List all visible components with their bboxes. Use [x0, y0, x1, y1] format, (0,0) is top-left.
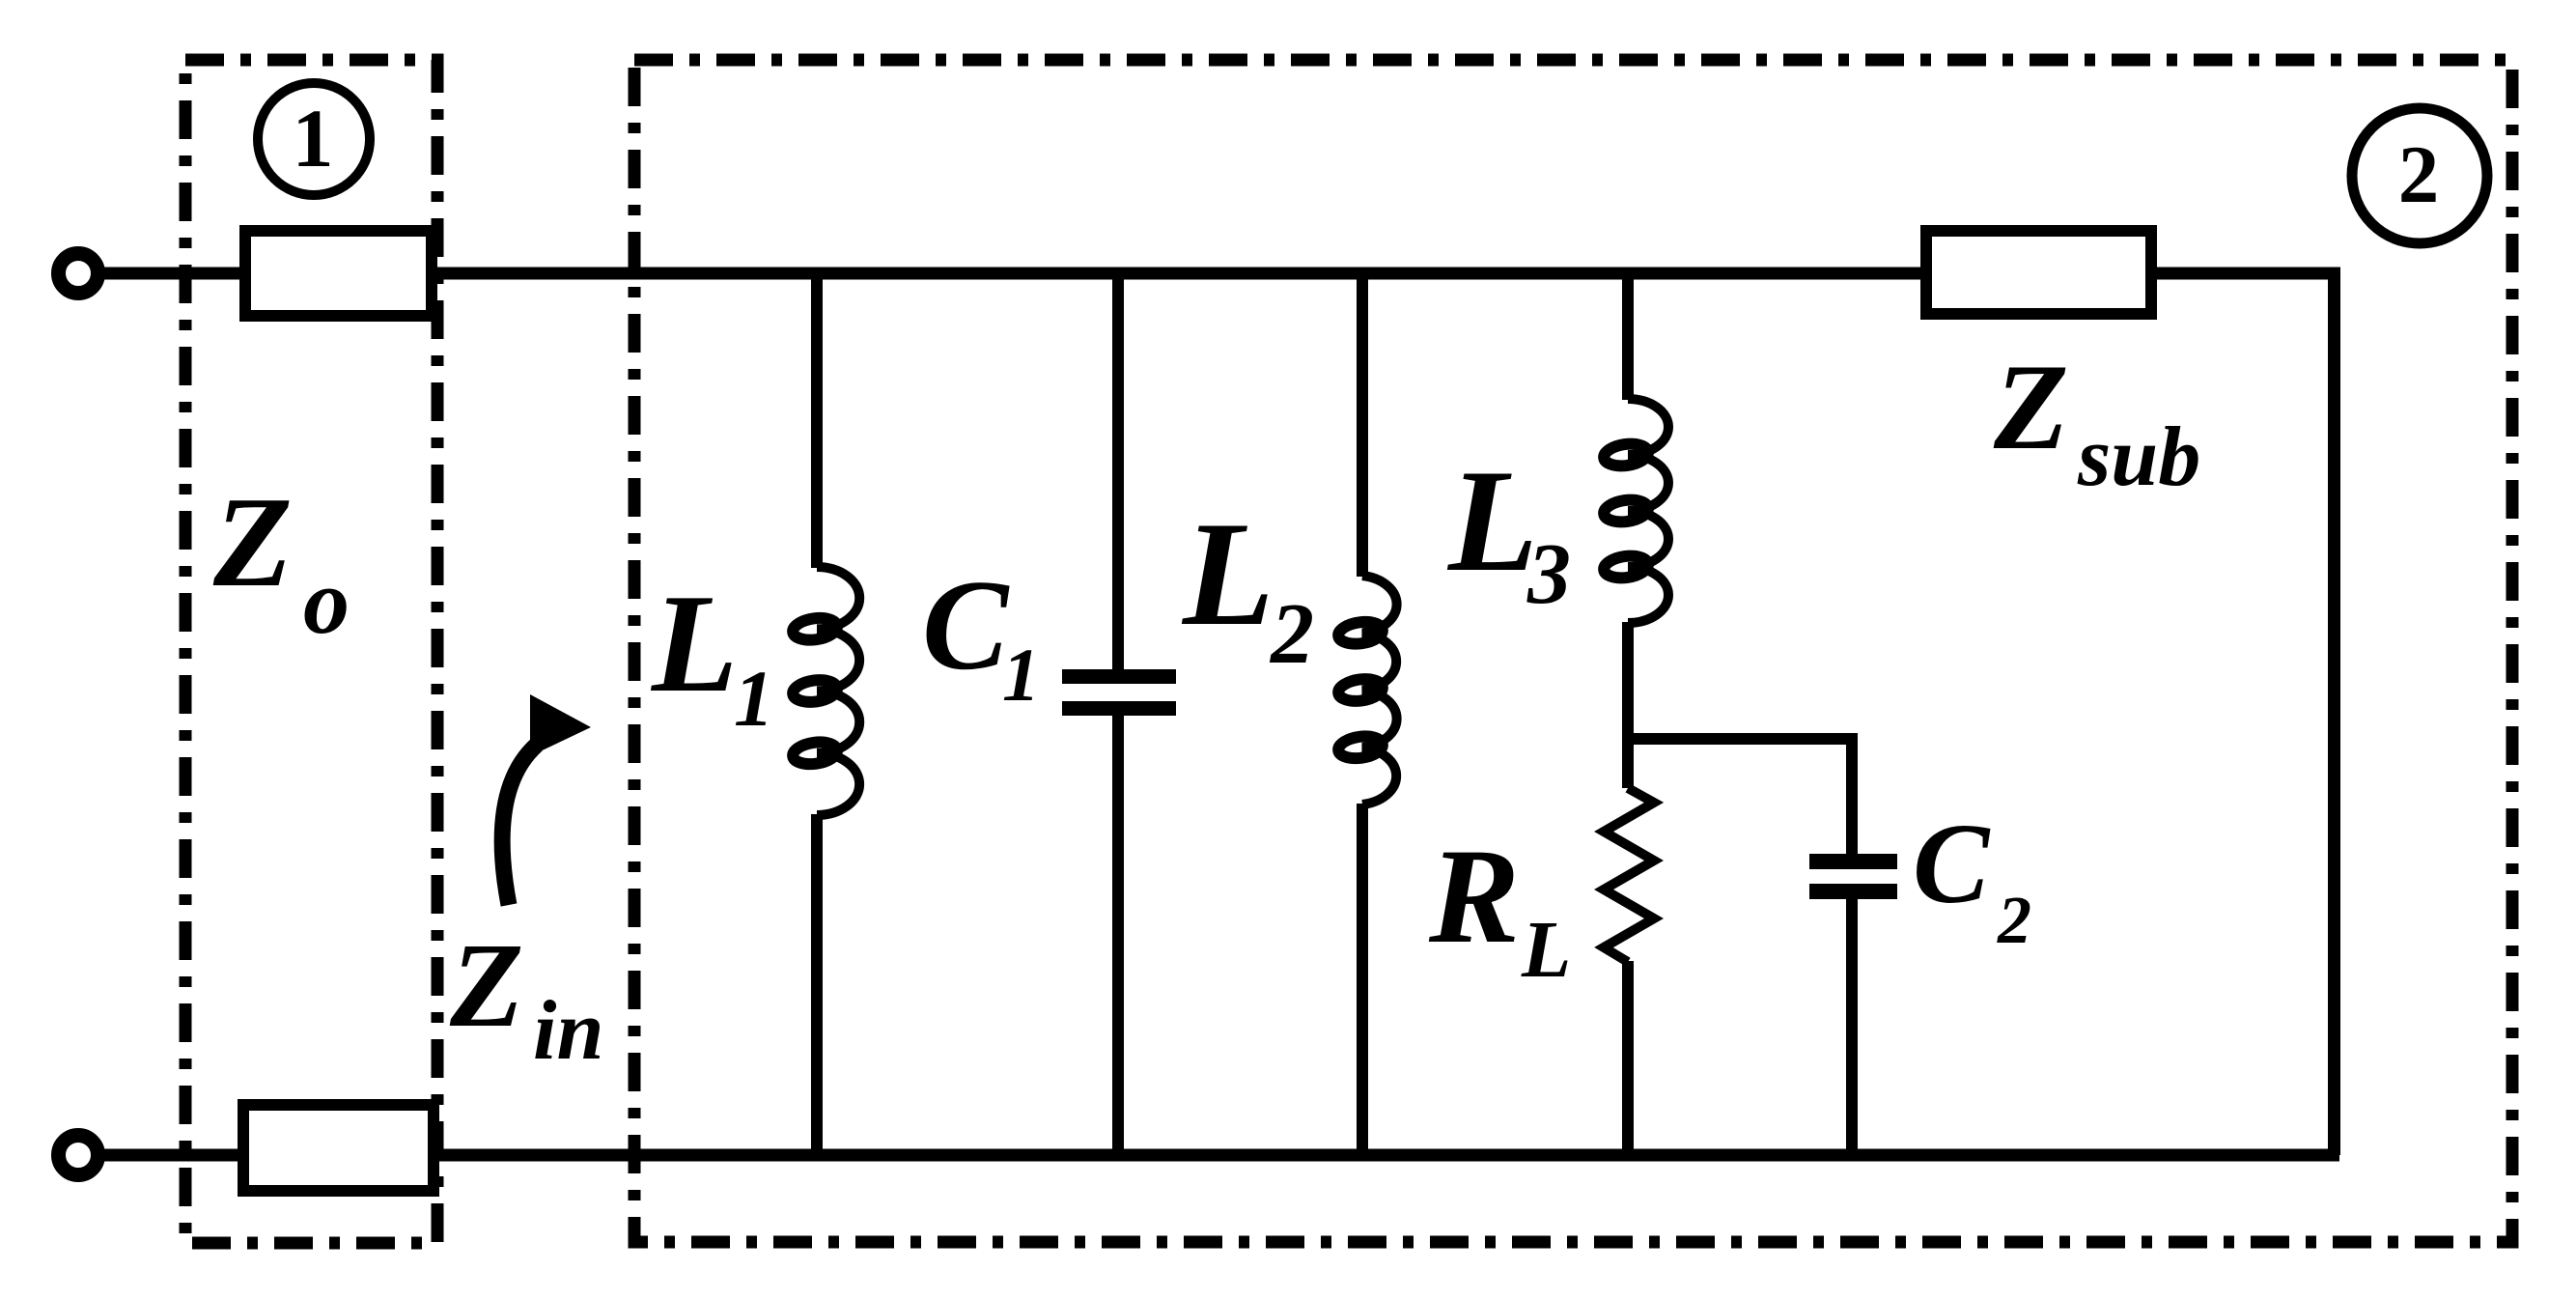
circled label 1 [258, 83, 370, 195]
svg-text:o: o [303, 550, 350, 653]
circled label 2 [2352, 108, 2487, 243]
inductor L2 coil [1337, 576, 1397, 805]
curved arrow Zin [502, 694, 591, 905]
svg-text:L: L [650, 565, 738, 721]
wire bottom bus [439, 1149, 2339, 1162]
svg-text:in: in [533, 984, 603, 1078]
dash-dot box network 2 [634, 60, 2512, 1242]
inductor L2 branch wire bottom [1357, 804, 1368, 1155]
transmission-line block bottom [243, 1105, 434, 1191]
svg-text:1: 1 [1002, 633, 1040, 717]
svg-text:L: L [1521, 905, 1571, 995]
inductor L2 branch wire top [1357, 273, 1368, 577]
resistor RL zigzag [1604, 788, 1654, 962]
svg-text:3: 3 [1526, 526, 1571, 622]
svg-text:Z: Z [1993, 340, 2069, 475]
svg-text:2: 2 [1997, 884, 2031, 958]
inductor L1 branch wire bottom [811, 814, 823, 1155]
svg-text:2: 2 [2398, 129, 2440, 220]
inductor L3 coil [1603, 399, 1668, 623]
wire bottom from terminal to block [98, 1149, 243, 1162]
capacitor C1 branch wire top [1112, 273, 1124, 670]
svg-text:C: C [922, 553, 1010, 696]
svg-text:Z: Z [449, 919, 523, 1053]
inductor L3 branch wire top [1622, 273, 1634, 400]
wire junction to C2 branch [1628, 739, 1852, 856]
svg-text:2: 2 [1269, 586, 1314, 682]
transmission-line block Z0 top [245, 231, 432, 316]
terminal bottom-left [59, 1136, 98, 1175]
inductor L1 coil [792, 567, 860, 815]
inductor L1 branch wire top [811, 273, 823, 568]
transmission-line block Zsub [1926, 231, 2151, 314]
svg-text:R: R [1428, 821, 1520, 972]
capacitor C2 plates [1809, 854, 1897, 869]
wire top-right with corner down [2151, 273, 2335, 1155]
svg-text:sub: sub [2077, 410, 2200, 504]
wire top from terminal to Z0 block [98, 268, 239, 280]
terminal top-left [59, 254, 98, 294]
capacitor C2 branch wire bottom [1846, 898, 1858, 1155]
dash-dot box network 1 [185, 60, 437, 1243]
capacitor C1 plates [1062, 669, 1176, 684]
svg-text:Z: Z [212, 470, 293, 613]
svg-text:1: 1 [293, 92, 334, 184]
svg-text:1: 1 [734, 654, 774, 743]
svg-text:L: L [1446, 439, 1538, 602]
wire RL bottom [1622, 961, 1634, 1155]
svg-text:C: C [1913, 800, 1991, 927]
svg-text:L: L [1181, 491, 1274, 657]
wire L3 to junction [1622, 622, 1634, 788]
wire top main bus [437, 268, 1920, 280]
capacitor C1 branch wire bottom [1112, 716, 1124, 1155]
